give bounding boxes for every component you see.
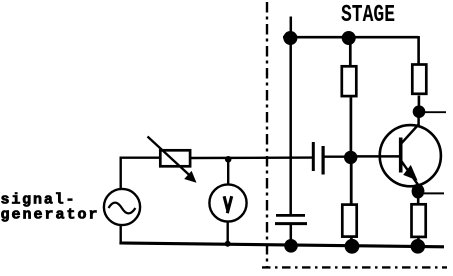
wire: bottom rail bbox=[119, 243, 444, 247]
wire: collector node into transistor bbox=[417, 116, 420, 126]
wire: emitter tap to right edge bbox=[424, 192, 444, 194]
capacitor coupling: left plate bbox=[312, 142, 315, 171]
node: voltmeter bottom junction bbox=[225, 241, 231, 247]
wire: bypass capacitor to ground node bbox=[290, 224, 293, 242]
wire: base lead bbox=[357, 155, 400, 158]
resistor R2 lower bias bbox=[342, 205, 356, 237]
node: base node bbox=[344, 151, 357, 164]
wire: generator bottom lead and corner bbox=[119, 225, 121, 243]
transistor Q1: emitter arrowhead bbox=[403, 165, 417, 181]
wire: variable resistor right to coupling capacitor bbox=[191, 156, 313, 159]
wire: R3 to collector node bbox=[418, 96, 421, 108]
stage boundary vertical dash-dot line bbox=[266, 2, 268, 268]
wire: collector tap to right edge bbox=[425, 111, 447, 113]
wire: top rail bbox=[283, 36, 418, 39]
wire: R1 to base node bbox=[350, 98, 353, 154]
node: voltmeter top junction bbox=[225, 156, 232, 163]
variable resistor: diagonal arrow line bbox=[148, 137, 193, 178]
resistor R4 emitter bbox=[412, 204, 426, 237]
wire: stub above supply node bbox=[290, 17, 293, 34]
voltmeter: V glyph bbox=[224, 196, 232, 213]
wire: voltmeter top lead bbox=[227, 158, 229, 185]
voltmeter: circle bbox=[209, 184, 246, 221]
signal generator G1: circle bbox=[104, 189, 140, 225]
transistor Q1: base bar bbox=[399, 138, 403, 173]
variable resistor: body bbox=[160, 150, 190, 166]
node: collector node bbox=[413, 105, 426, 118]
node A: supply node left bbox=[283, 31, 297, 45]
svg-text:STAGE: STAGE bbox=[341, 2, 395, 29]
stage boundary horizontal dash-dot line bbox=[262, 266, 447, 268]
wire: left stage column (node A down to bypass capacitor) bbox=[289, 43, 292, 215]
capacitor bypass: bottom plate bbox=[275, 222, 307, 225]
capacitor bypass: top plate bbox=[276, 214, 305, 217]
resistor R1 upper bias bbox=[342, 66, 357, 96]
resistor R3 collector bbox=[412, 65, 426, 94]
wire: voltmeter bottom lead bbox=[226, 221, 228, 245]
wire: coupling capacitor to base node bbox=[324, 155, 345, 157]
label signal-generator bbox=[1, 192, 98, 224]
node: ground left bbox=[284, 239, 298, 253]
transistor Q1: emitter lead inside bbox=[402, 161, 419, 186]
wire: R4 to ground node bbox=[417, 237, 420, 243]
node: ground right bbox=[411, 239, 426, 254]
wire: generator top lead and corner to resistor bbox=[121, 158, 160, 190]
wire: base node down to lower bias resistor bbox=[350, 162, 353, 204]
node: emitter node bbox=[412, 184, 425, 199]
capacitor coupling: right plate bbox=[322, 146, 325, 175]
node: ground middle bbox=[345, 239, 360, 254]
transistor Q1: collector lead inside bbox=[402, 124, 419, 143]
wire: node B to upper bias resistor bbox=[349, 43, 352, 66]
variable resistor: arrowhead bbox=[184, 171, 196, 183]
wire: emitter node to emitter resistor bbox=[417, 197, 420, 204]
svg-text:generator: generator bbox=[1, 206, 98, 223]
wire: R2 to ground node bbox=[350, 237, 353, 243]
transistor Q1: envelope circle bbox=[380, 125, 441, 186]
signal generator G1: sine wave bbox=[109, 203, 136, 214]
node B: supply node middle bbox=[342, 31, 356, 45]
wire: top rail corner down to collector resistor bbox=[417, 36, 420, 64]
